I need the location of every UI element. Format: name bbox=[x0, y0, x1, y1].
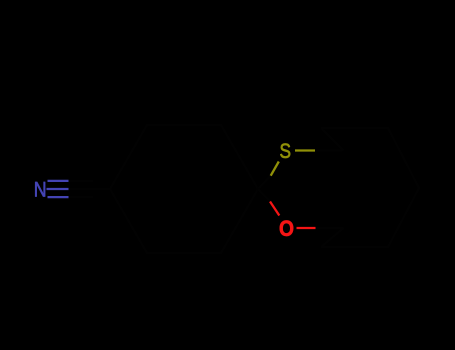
bond: S to CH2 (C4), sulfur half (olive) bbox=[295, 149, 315, 151]
bond: spiro C2 to O, carbon half bbox=[258, 189, 270, 202]
ring: right carbocyclic ring system with CH2 stubs bbox=[321, 128, 419, 247]
bond: O to CH2 (C6), carbon half bbox=[316, 227, 344, 229]
svg-text:O: O bbox=[279, 216, 294, 241]
bond: O to CH2 (C6), oxygen half (red) bbox=[297, 227, 316, 229]
svg-text:S: S bbox=[280, 139, 292, 163]
bond: spiro C2 to O, oxygen half (red) bbox=[270, 202, 279, 216]
svg-text:N: N bbox=[34, 178, 47, 202]
bond: nitrogen half of C#N triple bond (blue) bbox=[47, 181, 69, 197]
bond: spiro C2 to S, carbon half bbox=[258, 176, 271, 189]
bond: spiro C2 to S, sulfur half (olive) bbox=[271, 162, 279, 176]
ring: cyclohexane ring (left), vertices L-TL-TR-R-BR-BL bbox=[110, 125, 258, 253]
bond: nitrile C-ring single bond + carbon half of C#N triple bond bbox=[69, 181, 111, 197]
bond: S to CH2 (C4), carbon half bbox=[315, 149, 344, 151]
